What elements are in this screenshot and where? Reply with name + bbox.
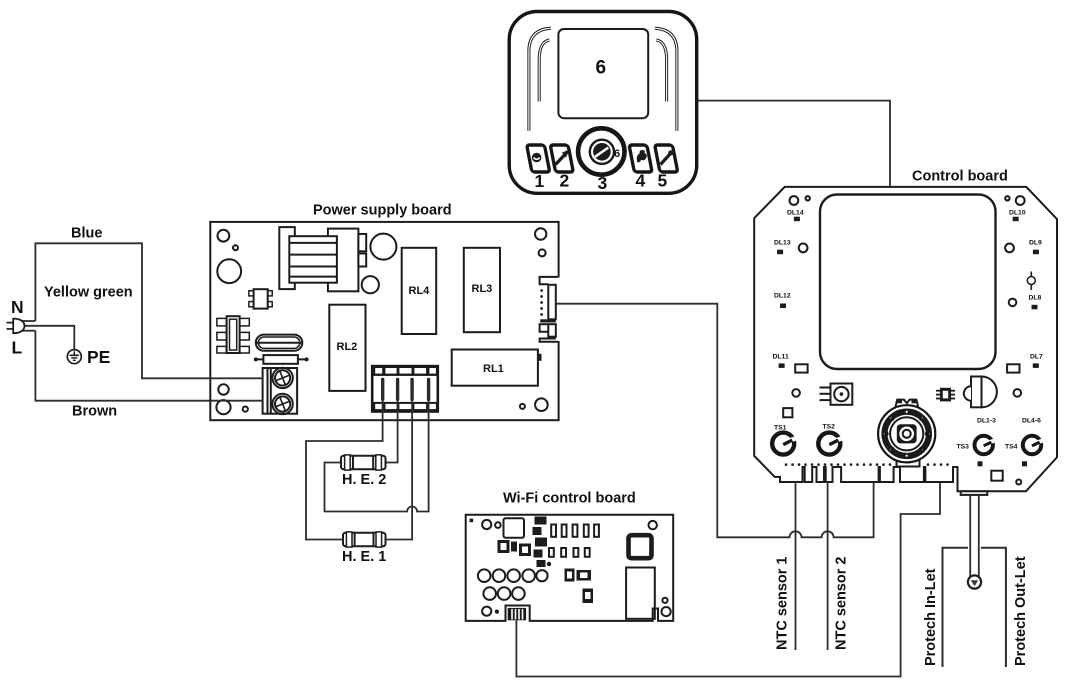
resistor row 2 — [549, 548, 590, 557]
svg-text:RL3: RL3 — [472, 283, 493, 295]
svg-text:TS1: TS1 — [774, 425, 787, 432]
pad bottom-right small — [520, 404, 525, 409]
svg-text:4: 4 — [636, 171, 646, 191]
svg-text:DL7: DL7 — [1030, 354, 1043, 361]
button 2 icon — [556, 152, 568, 165]
pipe bracket out-let — [981, 548, 1006, 667]
relay RL2 — [329, 305, 365, 391]
button 1 — [527, 145, 550, 172]
wire pin4 to H.E.2 left with crossover bump — [325, 398, 429, 512]
pad row 2 — [483, 587, 524, 600]
svg-text:N: N — [11, 297, 24, 317]
svg-text:Power supply board: Power supply board — [313, 203, 452, 219]
wire brown stub inside board to terminal — [210, 400, 262, 402]
capacitor C1 top — [370, 234, 396, 260]
svg-text:DL10: DL10 — [1009, 210, 1026, 217]
button 4 icon — [637, 150, 647, 162]
dotted solder line — [785, 463, 949, 466]
svg-text:Protech Out-Let: Protech Out-Let — [1013, 556, 1029, 666]
connector J4 striped — [508, 608, 525, 619]
wire yellow green (PE) from plug to PE symbol — [21, 326, 74, 350]
svg-text:1: 1 — [535, 171, 545, 191]
svg-text:6: 6 — [614, 148, 620, 160]
wire brown (L) from plug down and right to power board terminal — [35, 331, 262, 401]
svg-text:DL12: DL12 — [774, 293, 791, 300]
dot bottom-left — [495, 610, 499, 614]
hole top-right small — [539, 249, 546, 256]
svg-text:TS3: TS3 — [957, 444, 970, 451]
small component pair middle — [565, 569, 575, 582]
hole top-left — [482, 520, 491, 529]
antenna area rect — [626, 568, 655, 619]
knob button 3 — [578, 128, 624, 174]
wire blue (N) from plug up and right to power board terminal — [35, 243, 262, 378]
connector J3 on right edge of power board — [540, 277, 560, 342]
svg-text:Wi-Fi control board: Wi-Fi control board — [503, 491, 636, 507]
IC U1 with corner pins — [249, 289, 272, 308]
svg-text:PE: PE — [87, 347, 110, 367]
control board screen — [820, 195, 996, 370]
fuse F1 pill — [256, 335, 302, 351]
svg-text:RL4: RL4 — [409, 285, 431, 297]
pad right — [1014, 389, 1022, 397]
mounting hole bottom-left small — [218, 384, 228, 394]
component cluster column — [533, 517, 552, 568]
wire pin2 to H.E.2 right — [386, 398, 398, 463]
terminal block X1 — [263, 368, 298, 415]
small component below — [583, 589, 594, 604]
svg-text:L: L — [12, 338, 23, 358]
svg-text:H. E. 2: H. E. 2 — [342, 472, 386, 488]
pad square below TS3 — [978, 461, 983, 466]
mounting hole top-right — [535, 228, 546, 239]
relay RL3 — [464, 248, 500, 332]
svg-text:DL9: DL9 — [1029, 240, 1042, 247]
pump connector central — [878, 399, 935, 467]
display outline — [509, 12, 697, 194]
hole small — [495, 522, 501, 528]
svg-text:TS2: TS2 — [823, 424, 836, 431]
crystal component with side pins — [217, 316, 249, 353]
wifi board outline — [466, 515, 674, 621]
svg-text:DL13: DL13 — [774, 240, 791, 247]
transistor Q1 with heatsink — [820, 384, 853, 405]
mounting hole — [218, 230, 230, 242]
hole bottom-right — [662, 607, 671, 616]
decorative arc left inner — [539, 40, 549, 102]
pad square left — [783, 408, 792, 417]
fiducial dot — [470, 519, 474, 523]
wire display to control board — [697, 101, 891, 187]
button 5 icon — [661, 154, 671, 165]
decorative arc right inner — [656, 40, 666, 102]
relay RL4 — [402, 248, 437, 334]
wire blue stub inside board to terminal — [210, 377, 262, 379]
pad rect bottom right — [991, 471, 1002, 481]
mounting hole bottom-left — [216, 400, 230, 414]
test pad dot — [243, 407, 248, 412]
knob icon — [593, 143, 611, 161]
decorative arc right outer — [655, 28, 677, 131]
power plug — [13, 319, 24, 334]
pad left — [792, 389, 800, 397]
diode D1 vertical — [1030, 272, 1032, 291]
wire NTC sensor 1 — [795, 482, 797, 650]
pad square below TS4 — [1022, 461, 1027, 466]
mounting hole bottom-right — [535, 398, 548, 411]
hole bottom-left — [482, 607, 491, 616]
capacitor big left — [217, 259, 241, 283]
button 5 — [655, 145, 678, 172]
power supply board outline — [210, 222, 558, 420]
mounting hole small — [233, 245, 238, 250]
heating element H.E.2 — [341, 455, 386, 470]
pad bottom-right small — [662, 598, 667, 603]
transformer T1 — [279, 227, 366, 291]
svg-text:DL4-6: DL4-6 — [1022, 418, 1041, 425]
connector J2 4-pin — [372, 366, 438, 411]
wire wifi board to control board (via bottom run) — [516, 482, 940, 677]
wire power board to control board — [556, 304, 874, 538]
svg-text:5: 5 — [658, 171, 668, 191]
wire NTC sensor 2 — [827, 482, 829, 650]
pipe bracket in-let — [943, 548, 969, 667]
svg-text:RL2: RL2 — [337, 341, 358, 353]
svg-text:Yellow green: Yellow green — [44, 285, 133, 301]
svg-text:Protech In-Let: Protech In-Let — [923, 568, 939, 666]
component cluster left — [498, 540, 532, 556]
hole top-right — [649, 521, 657, 529]
button 2 — [550, 145, 573, 172]
svg-text:Blue: Blue — [71, 226, 102, 242]
svg-text:Control board: Control board — [912, 169, 1008, 185]
pad row 1 — [478, 569, 548, 582]
resistor row 1 — [551, 525, 599, 537]
pad circle bottom right — [1016, 480, 1021, 485]
wire pin3 to H.E.1 right — [386, 398, 413, 540]
diode D2 half-circle — [964, 377, 997, 408]
svg-text:DL11: DL11 — [773, 354, 789, 361]
IC U3 big chip — [629, 535, 652, 558]
svg-text:NTC sensor 1: NTC sensor 1 — [775, 557, 791, 650]
IC U4 small — [936, 388, 955, 402]
button 4 — [629, 145, 652, 172]
svg-text:DL14: DL14 — [787, 210, 804, 217]
svg-text:RL1: RL1 — [483, 363, 504, 375]
resistor R1 — [254, 355, 309, 364]
capacitor C2 — [362, 276, 379, 293]
svg-text:TS4: TS4 — [1005, 444, 1018, 451]
svg-text:2: 2 — [560, 171, 570, 191]
control board outline — [754, 187, 1057, 491]
probe plate — [961, 491, 988, 495]
heating element H.E.1 — [343, 532, 386, 547]
hole DL10 — [1005, 196, 1009, 200]
PE ground symbol — [67, 350, 81, 364]
relay RL1 — [452, 350, 538, 386]
svg-text:DL1-3: DL1-3 — [977, 418, 996, 425]
wire plug link lower — [21, 330, 35, 332]
hole DL14 — [790, 196, 799, 205]
svg-text:DL8: DL8 — [1029, 295, 1042, 302]
svg-text:Brown: Brown — [72, 404, 117, 420]
svg-text:NTC sensor 2: NTC sensor 2 — [834, 557, 850, 650]
display screen — [558, 29, 648, 118]
button 1 icon — [532, 153, 542, 163]
svg-text:6: 6 — [596, 58, 607, 79]
IC U2 square — [504, 518, 525, 538]
svg-text:H. E. 1: H. E. 1 — [342, 549, 386, 565]
probe wires — [969, 495, 971, 576]
wire plug link upper — [21, 320, 35, 322]
probe bulb — [968, 575, 981, 588]
decorative arc left outer — [529, 28, 551, 131]
svg-text:3: 3 — [598, 173, 608, 193]
wire pin1 to H.E.1 left — [306, 398, 383, 540]
